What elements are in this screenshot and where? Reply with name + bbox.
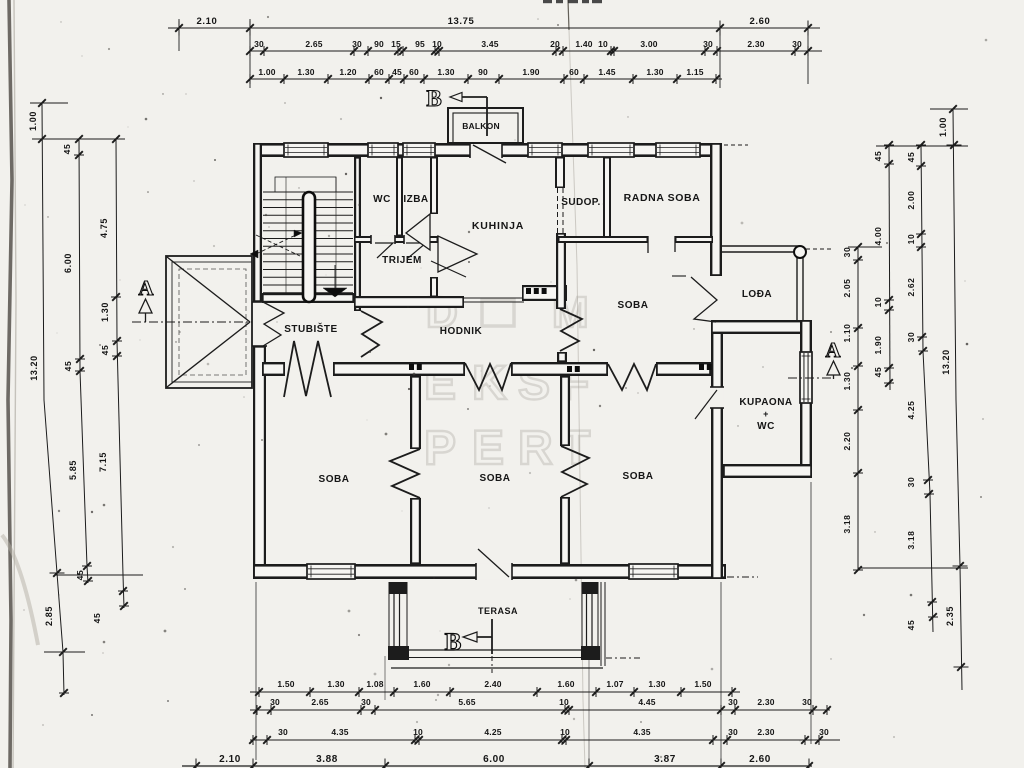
dimension col right-1: 30 2.05 1.10 1.30 2.20 3.18 — [857, 247, 859, 570]
svg-text:LOĐA: LOĐA — [742, 289, 772, 300]
svg-text:45: 45 — [63, 361, 73, 372]
bottom guide lines — [255, 582, 257, 760]
dashes right of north wall — [724, 144, 748, 146]
svg-text:2.10: 2.10 — [219, 754, 241, 765]
svg-text:90: 90 — [478, 67, 488, 77]
svg-text:45: 45 — [100, 345, 110, 356]
svg-text:45: 45 — [92, 613, 102, 624]
wall: hodnik north / trijem south — [354, 296, 464, 308]
svg-text:3.88: 3.88 — [316, 754, 338, 765]
wall: main interior corridor wall segment east — [656, 362, 711, 376]
door: soba-middle (zigzag) — [561, 446, 589, 497]
svg-text:SOBA: SOBA — [618, 300, 649, 311]
window: kitchen north — [528, 143, 562, 157]
door: trijem-kitchen (two leaves) — [406, 214, 430, 250]
svg-text:1.30: 1.30 — [327, 679, 344, 689]
svg-text:5.65: 5.65 — [458, 697, 475, 707]
dash-dot line right of south wall — [727, 576, 758, 578]
svg-text:1.30: 1.30 — [100, 302, 110, 322]
wall: partition soba-left | soba-middle — [410, 376, 421, 449]
svg-text:1.30: 1.30 — [297, 67, 314, 77]
right dims connector lines — [876, 145, 968, 147]
svg-text:A: A — [138, 276, 154, 300]
wall: kupaona east — [800, 320, 812, 478]
svg-text:1.30: 1.30 — [646, 67, 663, 77]
svg-text:4.25: 4.25 — [906, 401, 916, 420]
loda dashes — [806, 248, 832, 250]
left dims connector lines — [32, 138, 125, 140]
dimension col right-2: 45 4.00 10 1.90 45 — [889, 145, 890, 390]
svg-text:6.00: 6.00 — [483, 754, 505, 765]
svg-text:TERASA: TERASA — [478, 606, 518, 616]
svg-text:45: 45 — [906, 152, 916, 163]
svg-text:30: 30 — [352, 39, 362, 49]
door: kupaona door — [710, 387, 723, 408]
wall: west exterior upper (staircase) — [253, 143, 262, 302]
svg-text:1.07: 1.07 — [606, 679, 623, 689]
svg-text:45: 45 — [62, 144, 72, 155]
svg-text:30: 30 — [792, 39, 802, 49]
window: kupaona east (hatched) — [800, 352, 812, 403]
svg-text:4.75: 4.75 — [99, 218, 109, 238]
loda corner column — [794, 246, 806, 258]
svg-text:7.15: 7.15 — [98, 452, 108, 472]
threshold: kitchen-hodnik thin line — [464, 297, 524, 299]
porch centre dash-dot — [132, 321, 252, 323]
svg-text:3.45: 3.45 — [481, 39, 498, 49]
wall: main interior corridor wall segment west — [262, 362, 285, 376]
door: terrace door — [476, 563, 512, 579]
door: hodnik-soba middle opening zigzag — [465, 363, 511, 390]
svg-text:4.35: 4.35 — [331, 727, 348, 737]
svg-text:2.35: 2.35 — [945, 606, 955, 626]
door: balcony door — [470, 142, 502, 157]
svg-text:30: 30 — [802, 697, 812, 707]
wall: partition IZBA|kitchen — [430, 157, 438, 214]
svg-text:2.05: 2.05 — [842, 279, 852, 298]
svg-text:6.00: 6.00 — [63, 253, 73, 273]
wall marks east — [699, 364, 704, 370]
wall: north exterior — [253, 143, 721, 157]
wall: partition soba-middle | soba-right — [560, 376, 570, 446]
svg-text:WC: WC — [373, 194, 391, 205]
wall: main interior corridor wall segment 3 — [511, 362, 608, 376]
svg-text:SOBA: SOBA — [480, 473, 511, 484]
door: hodnik-soba east opening zigzag — [608, 364, 656, 390]
window: IZBA north — [403, 143, 435, 157]
svg-text:TRIJEM: TRIJEM — [382, 255, 422, 266]
svg-text:45: 45 — [873, 151, 883, 162]
svg-text:4.35: 4.35 — [633, 727, 650, 737]
wall: kupaona south — [723, 464, 812, 478]
wall: main interior corridor wall segment 2 — [333, 362, 465, 376]
door: porch-stubiste zigzag — [263, 302, 284, 346]
svg-text:WC: WC — [757, 421, 775, 432]
svg-text:1.50: 1.50 — [694, 679, 711, 689]
svg-text:30: 30 — [254, 39, 264, 49]
svg-text:3.18: 3.18 — [906, 531, 916, 550]
wall: west exterior lower — [253, 346, 266, 579]
svg-text:4.45: 4.45 — [638, 697, 655, 707]
dimension col left-3: 4.75 1.30 45 7.15 45 — [116, 139, 124, 608]
wall: partition sudoper|radna soba — [603, 157, 611, 240]
svg-text:1.45: 1.45 — [598, 67, 615, 77]
door: entrance from porch — [252, 302, 266, 346]
svg-text:KUPAONA: KUPAONA — [739, 397, 792, 408]
svg-text:1.50: 1.50 — [277, 679, 294, 689]
svg-text:3.00: 3.00 — [640, 39, 657, 49]
svg-text:1.60: 1.60 — [557, 679, 574, 689]
svg-text:2.00: 2.00 — [906, 191, 916, 210]
svg-text:2.65: 2.65 — [311, 697, 328, 707]
svg-text:1.00: 1.00 — [258, 67, 275, 77]
wall: south exterior — [253, 564, 726, 579]
svg-text:30: 30 — [703, 39, 713, 49]
scan fold line — [568, 0, 585, 768]
dimension row top-2 — [250, 50, 822, 52]
svg-text:2.30: 2.30 — [747, 39, 764, 49]
dimension row bottom-1 — [250, 691, 740, 693]
window: radna soba north — [656, 143, 700, 157]
wall: WC IZBA south — [354, 236, 438, 243]
dimension row top-1: 2.10 13.75 2.60 — [168, 27, 820, 29]
wall marks at soba partition west — [409, 364, 414, 370]
svg-text:BALKON: BALKON — [462, 121, 500, 131]
terrace left column — [389, 582, 407, 594]
svg-text:2.85: 2.85 — [44, 606, 54, 626]
door: WC — [371, 235, 395, 243]
staircase upper landing outline — [275, 177, 336, 192]
svg-text:45: 45 — [392, 67, 402, 77]
loda railing top — [722, 245, 800, 247]
dimension col right-4: 1.00 13.20 2.35 — [953, 109, 962, 690]
svg-text:1.90: 1.90 — [522, 67, 539, 77]
svg-text:1.10: 1.10 — [842, 324, 852, 343]
window: WC north — [368, 143, 398, 157]
svg-text:1.30: 1.30 — [648, 679, 665, 689]
door: IZBA — [404, 235, 428, 243]
svg-text:P: P — [424, 422, 456, 475]
svg-text:30: 30 — [906, 477, 916, 488]
svg-text:RADNA SOBA: RADNA SOBA — [624, 192, 701, 204]
svg-text:1.30: 1.30 — [437, 67, 454, 77]
wall: kitchen east / sudoper west — [555, 157, 565, 188]
svg-text:15: 15 — [391, 39, 401, 49]
svg-text:30: 30 — [361, 697, 371, 707]
svg-text:45: 45 — [873, 367, 883, 378]
staircase down arrow — [334, 265, 336, 288]
wall: staircase lower band — [262, 293, 354, 303]
dimension row top-3 — [250, 78, 722, 80]
svg-text:1.90: 1.90 — [873, 336, 883, 355]
staircase treads — [263, 191, 353, 193]
svg-text:1.40: 1.40 — [575, 39, 592, 49]
cut-off text remnants at top edge — [543, 0, 552, 3]
svg-text:2.60: 2.60 — [750, 16, 771, 27]
wall: kupaona north — [711, 320, 812, 334]
svg-text:KUHINJA: KUHINJA — [472, 220, 524, 232]
loda railing east — [796, 249, 798, 321]
svg-text:2.20: 2.20 — [842, 432, 852, 451]
staircase direction dashed cross — [256, 233, 300, 254]
svg-text:10: 10 — [873, 297, 883, 308]
svg-text:13.75: 13.75 — [448, 16, 475, 27]
svg-text:2.60: 2.60 — [749, 754, 771, 765]
svg-text:2.30: 2.30 — [757, 727, 774, 737]
svg-text:B: B — [426, 86, 441, 111]
svg-text:30: 30 — [270, 697, 280, 707]
dimension col right-3: 45 2.00 10 2.62 30 4.25 30 3.18 45 — [921, 145, 933, 632]
scan left page edge — [8, 0, 12, 768]
svg-text:10: 10 — [598, 39, 608, 49]
porch roof diagonals — [167, 257, 250, 322]
dimension col left-2: 45 6.00 45 5.85 45 — [79, 139, 88, 583]
svg-text:13.20: 13.20 — [941, 349, 951, 375]
svg-text:20: 20 — [550, 39, 560, 49]
wall: kitchen south — [522, 285, 567, 301]
window: soba south-east — [629, 564, 678, 579]
svg-text:90: 90 — [374, 39, 384, 49]
scan smudge bottom-left — [2, 535, 38, 645]
svg-text:30: 30 — [842, 247, 852, 258]
svg-text:4.25: 4.25 — [484, 727, 501, 737]
svg-text:60: 60 — [374, 67, 384, 77]
svg-text:4.00: 4.00 — [873, 227, 883, 246]
wall: soba mid-right north — [558, 236, 648, 243]
wall: east exterior lower / kupaona west — [711, 322, 723, 579]
svg-text:30: 30 — [728, 697, 738, 707]
svg-text:45: 45 — [906, 620, 916, 631]
door: stubiste-hodnik (zigzag) — [361, 311, 382, 357]
svg-text:2.62: 2.62 — [906, 278, 916, 297]
marks kitchen sill — [526, 288, 531, 294]
svg-text:1.00: 1.00 — [28, 111, 38, 131]
svg-text:+: + — [763, 409, 769, 419]
svg-text:STUBIŠTE: STUBIŠTE — [284, 322, 337, 335]
svg-text:13.20: 13.20 — [29, 355, 39, 381]
svg-text:30: 30 — [728, 727, 738, 737]
porch outline — [166, 256, 252, 388]
svg-text:1.20: 1.20 — [339, 67, 356, 77]
svg-text:5.85: 5.85 — [68, 460, 78, 480]
terrace right column — [582, 582, 598, 594]
terrace edge dashes right — [606, 657, 642, 659]
window: staircase north — [284, 143, 328, 157]
svg-text:1.08: 1.08 — [366, 679, 383, 689]
svg-text:10: 10 — [560, 727, 570, 737]
svg-text:30: 30 — [278, 727, 288, 737]
door: soba mid-right west (zigzag) — [560, 309, 582, 351]
staircase central rail capsule — [303, 192, 315, 302]
svg-text:B: B — [445, 629, 462, 656]
window: sudoper north — [588, 143, 634, 157]
svg-text:A: A — [825, 338, 841, 362]
svg-text:60: 60 — [569, 67, 579, 77]
svg-text:30: 30 — [906, 332, 916, 343]
svg-text:1.30: 1.30 — [842, 372, 852, 391]
svg-text:1.60: 1.60 — [413, 679, 430, 689]
terrace south edge lines — [409, 649, 600, 651]
dimension row bottom-3 — [250, 739, 840, 741]
door: loda door (zigzag) — [691, 277, 717, 322]
svg-text:10: 10 — [413, 727, 423, 737]
svg-text:3.87: 3.87 — [654, 754, 676, 765]
window: soba south-west — [307, 564, 355, 579]
svg-text:3.18: 3.18 — [842, 515, 852, 534]
wall: east exterior upper — [710, 143, 722, 276]
svg-text:2.65: 2.65 — [305, 39, 322, 49]
balcony walls — [448, 108, 523, 143]
svg-text:60: 60 — [409, 67, 419, 77]
wall: staircase east partition — [354, 157, 361, 311]
wall marks mid — [567, 366, 572, 372]
svg-text:1.15: 1.15 — [686, 67, 703, 77]
svg-text:SOBA: SOBA — [623, 471, 654, 482]
dimension col left-1: 1.00 13.20 2.85 — [42, 103, 64, 695]
svg-text:2.10: 2.10 — [197, 16, 218, 27]
svg-text:R: R — [518, 422, 553, 475]
svg-text:95: 95 — [415, 39, 425, 49]
svg-text:IZBA: IZBA — [403, 194, 428, 205]
svg-text:2.40: 2.40 — [484, 679, 501, 689]
dimension row bottom-4: 2.10 3.88 6.00 3.87 2.60 — [182, 765, 812, 767]
door: stubiste-soba star zigzag — [284, 341, 331, 397]
door: soba-left (zigzag) — [390, 449, 420, 498]
watermark DOM EKSPERT line 1 — [424, 288, 590, 475]
svg-text:2.30: 2.30 — [757, 697, 774, 707]
svg-text:1.00: 1.00 — [938, 117, 948, 137]
svg-text:SOBA: SOBA — [319, 474, 350, 485]
dimension row bottom-2 — [250, 709, 830, 711]
wall: partition WC|IZBA — [396, 157, 403, 236]
svg-text:10: 10 — [559, 697, 569, 707]
svg-text:HODNIK: HODNIK — [440, 326, 483, 337]
svg-text:SUDOP.: SUDOP. — [561, 197, 600, 208]
svg-text:10: 10 — [432, 39, 442, 49]
svg-text:10: 10 — [906, 234, 916, 245]
svg-text:30: 30 — [819, 727, 829, 737]
svg-text:E: E — [472, 422, 504, 475]
